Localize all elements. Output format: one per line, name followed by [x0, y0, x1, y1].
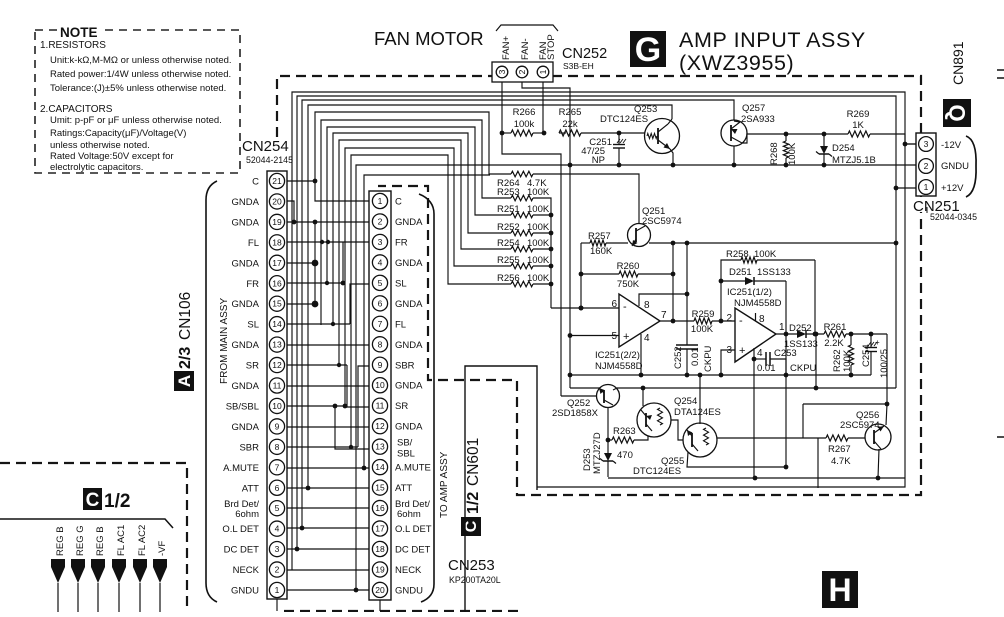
wire pin20 gnda	[287, 201, 294, 222]
svg-text:+12V: +12V	[941, 183, 964, 194]
svg-text:3: 3	[497, 69, 507, 74]
svg-text:100/25: 100/25	[879, 349, 890, 378]
svg-text:4: 4	[757, 348, 763, 359]
svg-text:R269: R269	[847, 109, 870, 120]
wire row dc 549	[287, 548, 369, 550]
svg-text:SBR: SBR	[239, 442, 259, 453]
svg-text:8: 8	[759, 314, 765, 325]
bracket over fan labels	[496, 25, 558, 31]
svg-text:5: 5	[611, 331, 617, 342]
transistor Q257	[721, 120, 747, 146]
wire row gnda 427	[287, 426, 369, 428]
svg-text:8: 8	[275, 442, 280, 452]
svg-text:R261: R261	[824, 322, 847, 333]
svg-text:GNDA: GNDA	[395, 258, 423, 269]
wire bus SBR	[351, 155, 511, 447]
svg-text:R254: R254	[497, 238, 520, 249]
svg-text:19: 19	[272, 217, 282, 227]
svg-text:IC251(2/2): IC251(2/2)	[595, 350, 640, 361]
gnd rail dots	[568, 163, 573, 168]
dashed border bottom strip	[284, 610, 520, 612]
svg-text:GNDA: GNDA	[232, 422, 260, 433]
svg-text:13: 13	[375, 442, 385, 452]
diode D253 zener	[607, 440, 609, 453]
svg-text:100K: 100K	[754, 249, 777, 260]
svg-text:SL: SL	[247, 320, 259, 331]
svg-text:18: 18	[272, 237, 282, 247]
assy letter G box	[630, 31, 666, 67]
svg-text:R258: R258	[726, 249, 749, 260]
svg-text:12: 12	[272, 360, 282, 370]
svg-text:SB/SBL: SB/SBL	[226, 401, 259, 412]
wire q257 emitter top	[734, 121, 740, 122]
svg-text:CN891: CN891	[950, 41, 966, 85]
svg-text:6: 6	[378, 298, 383, 308]
svg-text:2SC5974: 2SC5974	[642, 216, 682, 227]
wire d252 junction drop	[815, 334, 817, 388]
svg-text:GNDA: GNDA	[232, 258, 260, 269]
svg-text:20: 20	[272, 196, 282, 206]
dashed border bottom left assy	[0, 463, 187, 612]
wire gnd drop	[569, 165, 571, 388]
svg-text:GNDA: GNDA	[395, 299, 423, 310]
wire row sr 365	[287, 364, 347, 366]
svg-text:-VF: -VF	[157, 541, 168, 557]
svg-text:9: 9	[275, 421, 280, 431]
svg-text:8: 8	[644, 300, 650, 311]
wire bus GNDU rail	[356, 165, 916, 590]
svg-text:O.L DET: O.L DET	[395, 524, 432, 535]
svg-text:Q: Q	[945, 104, 970, 121]
note box title NOTE	[58, 24, 102, 37]
svg-text:KP200TA20L: KP200TA20L	[449, 575, 501, 585]
wire output to q256	[886, 334, 888, 404]
assy letter Q box	[943, 99, 971, 127]
svg-text:R256: R256	[497, 273, 520, 284]
svg-text:1/2: 1/2	[465, 492, 482, 514]
wire sum node	[533, 198, 551, 308]
resistor R265	[559, 130, 581, 136]
svg-text:R263: R263	[613, 426, 636, 437]
capacitor C253	[754, 358, 766, 360]
svg-text:2.CAPACITORS: 2.CAPACITORS	[40, 104, 113, 115]
svg-text:D252: D252	[789, 323, 812, 334]
wire r257 left riser	[580, 243, 582, 308]
svg-text:3: 3	[924, 139, 929, 149]
svg-text:R266: R266	[513, 107, 536, 118]
svg-text:Rated power:1/4W unless otherw: Rated power:1/4W unless otherwise noted.	[50, 69, 231, 80]
svg-text:G: G	[635, 31, 661, 69]
capacitor C252	[676, 344, 698, 346]
svg-text:unless otherwise noted.: unless otherwise noted.	[50, 140, 150, 151]
wire row gnda 222	[287, 221, 369, 223]
svg-text:CKPU: CKPU	[703, 345, 714, 372]
wire r269 to cn251	[870, 134, 916, 144]
svg-text:1: 1	[538, 69, 548, 74]
svg-text:D254: D254	[832, 143, 855, 154]
svg-text:100K: 100K	[527, 187, 550, 198]
wire r261 out	[846, 333, 887, 335]
svg-text:17: 17	[375, 524, 385, 534]
resistor R255	[511, 263, 533, 269]
solid border bottom left assy	[465, 366, 537, 612]
wire fan+ to mute transistor	[502, 133, 561, 396]
svg-text:4: 4	[275, 524, 280, 534]
resistor R266	[511, 130, 533, 136]
svg-text:100K: 100K	[527, 222, 550, 233]
wire pin5 input	[570, 335, 619, 337]
svg-text:GNDA: GNDA	[395, 422, 423, 433]
svg-text:GNDA: GNDA	[395, 217, 423, 228]
resistor R257	[590, 240, 606, 246]
wire q254 to q255	[671, 420, 683, 440]
wire q252 base	[561, 395, 597, 397]
wire r265 to q253	[581, 132, 645, 134]
connector CN253 tail	[379, 600, 381, 611]
svg-text:NJM4558D: NJM4558D	[734, 298, 782, 309]
wire row sbsbl 406	[287, 405, 345, 407]
svg-text:AMP INPUT ASSY: AMP INPUT ASSY	[679, 28, 866, 52]
svg-text:R252: R252	[497, 222, 520, 233]
wire output op2	[776, 333, 797, 335]
svg-text:470: 470	[617, 450, 633, 461]
wire row att 488	[287, 487, 369, 489]
svg-text:2SA933: 2SA933	[741, 114, 775, 125]
resistor R252	[511, 230, 533, 236]
wire bus SB/SBL	[345, 148, 511, 406]
svg-text:12: 12	[375, 421, 385, 431]
svg-text:DTC124ES: DTC124ES	[600, 114, 648, 125]
svg-text:4.7K: 4.7K	[831, 456, 851, 467]
svg-text:SR: SR	[395, 401, 408, 412]
svg-text:1/2: 1/2	[104, 491, 130, 512]
wire q257 collector row	[742, 134, 848, 143]
svg-text:100K: 100K	[527, 255, 550, 266]
svg-text:GNDA: GNDA	[395, 340, 423, 351]
svg-text:FL: FL	[395, 319, 406, 330]
svg-text:2/3: 2/3	[177, 347, 194, 369]
wire row brd 508	[287, 507, 369, 509]
wire q252 emitter down	[607, 407, 609, 440]
svg-text:R260: R260	[617, 261, 640, 272]
svg-text:7: 7	[378, 319, 383, 329]
svg-text:100K: 100K	[527, 273, 550, 284]
svg-text:2.2K: 2.2K	[824, 338, 844, 349]
svg-text:4: 4	[644, 333, 650, 344]
svg-text:R259: R259	[692, 309, 715, 320]
svg-text:14: 14	[272, 319, 282, 329]
svg-text:FR: FR	[246, 279, 259, 290]
svg-text:GNDA: GNDA	[232, 340, 260, 351]
wire bus FL	[321, 120, 511, 325]
resistor R260	[619, 271, 638, 277]
capacitor C251	[618, 133, 620, 144]
wire q254 riser	[642, 388, 644, 406]
wire r267 row	[717, 437, 826, 439]
svg-text:REG B: REG B	[55, 526, 66, 556]
transistor Q255	[683, 423, 717, 457]
wire rail 388	[570, 387, 600, 389]
wire +12V to cn251	[896, 187, 916, 189]
svg-text:11: 11	[273, 381, 282, 391]
svg-text:160K: 160K	[590, 246, 613, 257]
svg-text:C: C	[252, 177, 259, 188]
transistor Q251	[628, 224, 651, 247]
wire r260 riser right	[672, 243, 674, 321]
diode D252	[797, 330, 806, 338]
wire +12V line	[297, 96, 896, 549]
svg-text:R265: R265	[559, 107, 582, 118]
wire bus SL	[333, 133, 511, 324]
svg-text:17: 17	[272, 258, 282, 268]
wire feedback riser r258	[814, 260, 816, 334]
svg-text:A.MUTE: A.MUTE	[223, 463, 259, 474]
connector CN253 pins	[372, 193, 387, 208]
wire r259 to pin2	[712, 320, 735, 322]
svg-text:-12V: -12V	[941, 140, 962, 151]
op-amp IC251(1/2)	[735, 308, 776, 362]
svg-text:FAN-: FAN-	[520, 38, 531, 60]
resistor R268 vertical	[785, 134, 787, 141]
dashed border amp input assy	[277, 76, 921, 495]
svg-text:15: 15	[375, 483, 385, 493]
svg-text:A.MUTE: A.MUTE	[395, 463, 431, 474]
wire row fl 242	[287, 241, 369, 243]
wire r257 row	[581, 242, 590, 244]
svg-text:FL AC2: FL AC2	[137, 525, 148, 556]
svg-text:19: 19	[375, 564, 385, 574]
svg-text:SR: SR	[246, 361, 259, 372]
wire fan- drop	[522, 82, 570, 165]
transistor Q252	[597, 385, 620, 408]
svg-text:DC DET: DC DET	[395, 544, 431, 555]
resistor R269	[848, 131, 870, 137]
svg-text:11: 11	[376, 401, 385, 411]
resistor R251	[511, 212, 533, 218]
svg-text:-: -	[739, 315, 743, 327]
resistor R264	[511, 171, 533, 177]
wire fan stop drop	[542, 82, 544, 133]
svg-text:Ratings:Capacity(μF)/Voltage(V: Ratings:Capacity(μF)/Voltage(V)	[50, 128, 186, 139]
svg-text:+: +	[623, 331, 629, 343]
connector CN254 tail	[276, 599, 278, 611]
svg-text:GNDA: GNDA	[395, 381, 423, 392]
junction dots fan row	[500, 131, 505, 136]
svg-text:20: 20	[375, 585, 385, 595]
svg-text:1: 1	[275, 585, 280, 595]
svg-text:NP: NP	[592, 155, 605, 166]
svg-text:Unit:k-kΩ,M-MΩ or unless other: Unit:k-kΩ,M-MΩ or unless otherwise noted…	[50, 55, 232, 66]
wire row amute 468	[287, 467, 369, 469]
svg-text:+: +	[739, 345, 745, 357]
diode D251	[721, 280, 745, 282]
transistor Q253	[645, 119, 680, 154]
wire row sl 324	[287, 323, 350, 325]
bracket cn251	[966, 136, 976, 197]
svg-text:NOTE: NOTE	[60, 25, 98, 40]
svg-text:ATT: ATT	[395, 483, 412, 494]
wire q256 emitter	[878, 449, 879, 478]
svg-text:FAN+: FAN+	[501, 36, 512, 60]
svg-text:4: 4	[378, 257, 383, 267]
assy letter H box	[822, 571, 858, 608]
diode D254 zener	[823, 134, 825, 146]
svg-text:8: 8	[378, 339, 383, 349]
svg-text:R255: R255	[497, 255, 520, 266]
wire output 7	[660, 320, 694, 322]
svg-text:100K: 100K	[842, 349, 853, 372]
wire analog gnd rail	[570, 374, 871, 376]
svg-text:0.01: 0.01	[757, 363, 776, 374]
svg-text:A: A	[175, 375, 194, 387]
svg-text:S3B-EH: S3B-EH	[563, 61, 594, 71]
svg-text:FAN MOTOR: FAN MOTOR	[374, 28, 484, 49]
svg-text:10: 10	[272, 401, 282, 411]
wire pin4 down	[640, 334, 642, 375]
svg-text:R267: R267	[828, 444, 851, 455]
wire bus C	[315, 112, 511, 181]
svg-text:R268: R268	[769, 142, 780, 165]
svg-text:FROM MAIN ASSY: FROM MAIN ASSY	[219, 298, 230, 384]
wire q253 supply	[308, 105, 672, 488]
wire c252 riser	[686, 243, 688, 345]
svg-text:1.RESISTORS: 1.RESISTORS	[40, 40, 106, 51]
capacitor C254 electrolytic	[870, 334, 872, 347]
svg-text:100K: 100K	[527, 204, 550, 215]
wire row gndu 590	[287, 589, 369, 591]
svg-text:SBR: SBR	[395, 360, 415, 371]
svg-text:21: 21	[272, 176, 282, 186]
svg-text:Umit: p-pF or μF unless otherw: Umit: p-pF or μF unless otherwise noted.	[50, 115, 222, 126]
label C 1/2 block	[83, 488, 102, 510]
note box border	[35, 30, 240, 173]
label CN253	[446, 556, 504, 585]
svg-text:CN252: CN252	[562, 46, 607, 62]
connector CN254 pins	[269, 173, 284, 188]
svg-text:C: C	[86, 490, 100, 511]
svg-text:2: 2	[378, 216, 383, 226]
junction dot r263	[606, 438, 611, 443]
resistor R258	[741, 257, 757, 263]
wire r267 left riser	[817, 438, 819, 488]
svg-text:1: 1	[378, 196, 383, 206]
connector CN253 box	[369, 191, 391, 600]
svg-text:O.L DET: O.L DET	[222, 524, 259, 535]
resistor R263	[612, 437, 634, 443]
svg-text:5: 5	[378, 278, 383, 288]
svg-text:H: H	[828, 572, 851, 608]
svg-text:1: 1	[924, 182, 929, 192]
svg-text:16: 16	[272, 278, 282, 288]
svg-text:GNDA: GNDA	[232, 217, 260, 228]
wire feedback riser left	[721, 260, 741, 321]
svg-text:7: 7	[275, 462, 280, 472]
svg-text:1: 1	[779, 322, 785, 333]
svg-text:GNDA: GNDA	[232, 381, 260, 392]
svg-text:2: 2	[517, 69, 527, 74]
svg-text:2SC5974: 2SC5974	[840, 420, 880, 431]
wire q257 base down	[733, 146, 735, 165]
svg-text:FL: FL	[248, 238, 259, 249]
resistor R253	[511, 195, 533, 201]
wire row gnda 345	[287, 344, 369, 346]
wire fan+ drop	[501, 82, 503, 133]
svg-text:GNDA: GNDA	[232, 197, 260, 208]
label C 1/2 CN601 rotated	[459, 420, 483, 536]
svg-text:SB/: SB/	[397, 438, 413, 449]
wire row neck 570	[287, 569, 369, 571]
resistor R256	[511, 281, 533, 287]
svg-text:2: 2	[924, 161, 929, 171]
connector CN251	[916, 133, 936, 196]
svg-text:electrolytic capacitors.: electrolytic capacitors.	[50, 162, 143, 173]
svg-text:FR: FR	[395, 237, 408, 248]
wire pin4 op2 down	[753, 348, 755, 478]
svg-text:MTZJ5.1B: MTZJ5.1B	[832, 155, 876, 166]
svg-text:100K: 100K	[527, 238, 550, 249]
svg-text:D251: D251	[729, 267, 752, 278]
wire row gnda 386	[287, 385, 369, 387]
bracket from main assy	[206, 181, 217, 602]
svg-text:6ohm: 6ohm	[235, 509, 259, 520]
svg-text:750K: 750K	[617, 279, 640, 290]
wire feedback riser d251	[785, 281, 787, 334]
svg-text:SBL: SBL	[397, 449, 415, 460]
wire pin3 input	[721, 350, 735, 375]
transistor Q256	[865, 424, 891, 450]
label CN251	[911, 198, 965, 212]
wire q251 bias row	[649, 242, 896, 244]
wire bus A.MUTE	[364, 175, 490, 468]
svg-text:3: 3	[378, 237, 383, 247]
wire bus line bottom left	[0, 519, 173, 528]
resistor R254	[511, 246, 533, 252]
svg-text:3: 3	[275, 544, 280, 554]
svg-text:R253: R253	[497, 187, 520, 198]
wire q257 supply	[302, 100, 734, 528]
bracket to amp assy	[419, 194, 434, 602]
svg-text:CN254: CN254	[242, 138, 289, 155]
svg-text:2: 2	[726, 313, 732, 324]
wire q255 top	[699, 375, 701, 424]
svg-text:NECK: NECK	[395, 565, 422, 576]
svg-text:22k: 22k	[562, 119, 578, 130]
svg-text:13: 13	[272, 340, 282, 350]
svg-text:TO AMP ASSY: TO AMP ASSY	[439, 451, 450, 518]
resistor R267	[826, 435, 848, 441]
wire q255 emitter	[687, 452, 786, 467]
svg-text:2SD1858X: 2SD1858X	[552, 408, 599, 419]
svg-text:10: 10	[375, 380, 385, 390]
wire row ol 528	[287, 527, 369, 529]
wire bus SR	[339, 140, 511, 365]
transistor Q254	[637, 403, 671, 437]
junction dots channel	[313, 179, 318, 184]
svg-text:+: +	[875, 338, 880, 347]
resistor R261	[824, 331, 846, 337]
svg-text:R251: R251	[497, 204, 520, 215]
svg-text:9: 9	[378, 360, 383, 370]
svg-text:52044-0345: 52044-0345	[930, 212, 977, 222]
svg-text:1SS133: 1SS133	[757, 267, 791, 278]
svg-text:6: 6	[275, 483, 280, 493]
svg-text:R257: R257	[588, 231, 611, 242]
edge tick right	[997, 69, 1004, 71]
svg-text:18: 18	[375, 544, 385, 554]
wire pin6 input	[551, 307, 619, 309]
svg-text:DC DET: DC DET	[224, 545, 260, 556]
svg-text:16: 16	[375, 503, 385, 513]
